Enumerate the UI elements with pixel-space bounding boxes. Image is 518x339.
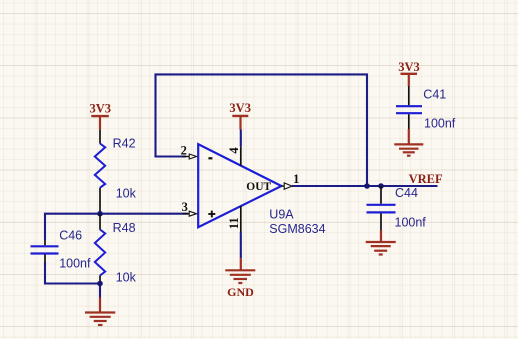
svg-text:100nf: 100nf — [59, 257, 91, 271]
svg-text:SGM8634: SGM8634 — [269, 222, 325, 236]
svg-text:R48: R48 — [113, 221, 136, 235]
resistor R42 — [95, 130, 105, 214]
junction node B (R48/C46/ground) — [97, 281, 103, 287]
op-amp pin 2 with input arrow — [182, 154, 197, 159]
wire pin 11 to GND — [240, 232, 242, 258]
op-amp minus input marker — [208, 157, 212, 159]
svg-text:10k: 10k — [116, 271, 137, 285]
wire output from pin 1 to VREF — [292, 185, 438, 187]
capacitor C41 — [396, 106, 422, 129]
svg-text:OUT: OUT — [246, 181, 271, 193]
capacitor C46 — [31, 240, 59, 262]
ground below C41 — [394, 129, 423, 156]
resistor R48 — [95, 214, 105, 284]
svg-text:R42: R42 — [113, 137, 136, 151]
svg-text:3: 3 — [182, 200, 188, 214]
svg-text:1: 1 — [293, 172, 299, 186]
power port 3V3 above R42 — [90, 102, 112, 130]
op-amp pin 1 with output arrow — [281, 183, 292, 189]
op-amp plus input marker — [208, 211, 215, 218]
svg-text:3V3: 3V3 — [229, 101, 251, 115]
ground below lower node — [85, 297, 115, 325]
wire feedback loop from pin 2 up and over to output node — [156, 74, 368, 186]
svg-text:10k: 10k — [116, 187, 137, 201]
op-amp pin 3 with input arrow — [183, 211, 197, 216]
svg-text:C44: C44 — [395, 186, 418, 200]
power port GND below op-amp — [225, 258, 255, 299]
power port 3V3 above C41 — [398, 60, 420, 86]
wire from C46 bottom to lower node — [45, 262, 100, 284]
ground below C44 — [366, 230, 396, 255]
svg-text:4: 4 — [227, 147, 241, 154]
wire 3V3 to C41 — [408, 86, 410, 105]
svg-text:C46: C46 — [59, 228, 82, 242]
svg-text:100nf: 100nf — [424, 116, 456, 130]
junction node A (R42/R48/C46/pin3) — [97, 211, 103, 217]
svg-text:3V3: 3V3 — [398, 60, 420, 74]
wire 3V3 to pin 4 — [240, 130, 242, 147]
junction node at C44 branch — [378, 183, 384, 189]
svg-text:GND: GND — [227, 285, 254, 299]
svg-text:VREF: VREF — [409, 172, 443, 186]
op-amp pin 11 — [240, 206, 242, 232]
wire lower node to ground stub — [99, 284, 101, 299]
svg-text:11: 11 — [227, 217, 241, 229]
svg-text:U9A: U9A — [269, 208, 294, 222]
wire from center node left to C46 branch — [45, 214, 100, 240]
svg-text:2: 2 — [181, 144, 187, 158]
power port 3V3 above pin 4 — [229, 101, 251, 129]
op-amp pin 4 — [240, 146, 242, 165]
svg-text:C41: C41 — [423, 88, 446, 102]
svg-text:3V3: 3V3 — [90, 102, 112, 116]
op-amp U9A — [198, 144, 281, 227]
svg-text:100nf: 100nf — [395, 216, 427, 230]
capacitor C44 — [367, 186, 396, 230]
junction node at feedback/output — [364, 183, 370, 189]
wire from center node to pin 3 — [100, 213, 188, 215]
